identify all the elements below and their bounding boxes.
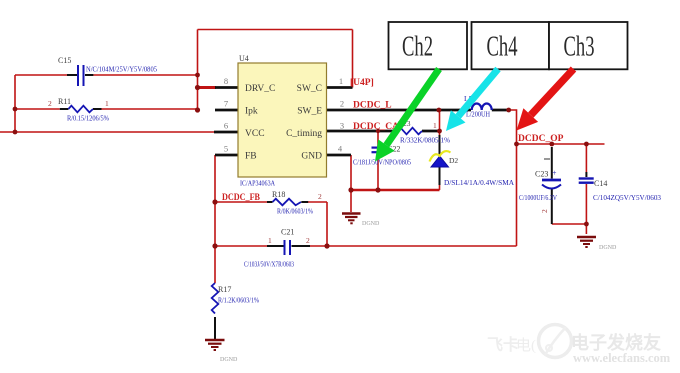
svg-text:R/0K/0603/1%: R/0K/0603/1% — [277, 208, 313, 216]
svg-text:DGND: DGND — [220, 357, 238, 363]
svg-text:Ipk: Ipk — [245, 107, 258, 117]
svg-text:1: 1 — [433, 121, 437, 130]
svg-text:C/1000UF/6.3V: C/1000UF/6.3V — [519, 194, 557, 202]
svg-text:8: 8 — [224, 76, 228, 86]
svg-text:C/103J/50V/X7R/0603: C/103J/50V/X7R/0603 — [244, 261, 294, 269]
svg-text:SW_C: SW_C — [297, 84, 322, 94]
svg-text:DRV_C: DRV_C — [245, 84, 275, 94]
svg-text:+: + — [552, 169, 557, 178]
svg-text:1: 1 — [268, 236, 272, 245]
svg-text:DGND: DGND — [599, 245, 617, 251]
svg-text:C15: C15 — [58, 56, 71, 65]
svg-text:D/SL14/1A/0.4W/SMA: D/SL14/1A/0.4W/SMA — [444, 179, 514, 187]
svg-text:R/1.2K/0603/1%: R/1.2K/0603/1% — [218, 297, 259, 305]
svg-text:7: 7 — [224, 99, 228, 109]
svg-text:2: 2 — [540, 209, 549, 213]
svg-text:C_timing: C_timing — [286, 129, 322, 139]
svg-text:2: 2 — [318, 192, 322, 201]
svg-text:Ch4: Ch4 — [487, 31, 518, 63]
svg-text:电(·: 电(· — [516, 337, 541, 354]
svg-text:6: 6 — [224, 121, 228, 131]
svg-text:3: 3 — [340, 121, 344, 131]
svg-text:VCC: VCC — [245, 129, 265, 139]
svg-text:4: 4 — [338, 144, 343, 154]
svg-text:2: 2 — [48, 99, 52, 108]
svg-text:C21: C21 — [281, 228, 294, 237]
svg-text:R17: R17 — [218, 285, 231, 294]
svg-text:R/332K/0805/1%: R/332K/0805/1% — [400, 137, 450, 145]
svg-text:R18: R18 — [272, 190, 285, 199]
svg-text:C/104ZQ5V/Y5V/0603: C/104ZQ5V/Y5V/0603 — [593, 194, 662, 202]
svg-text:www.elecfans.com: www.elecfans.com — [573, 351, 671, 365]
svg-text:N/C/104M/25V/Y5V/0805: N/C/104M/25V/Y5V/0805 — [86, 66, 157, 74]
svg-text:Ch3: Ch3 — [564, 31, 595, 63]
svg-text:5: 5 — [224, 144, 228, 154]
svg-text:SW_E: SW_E — [297, 107, 322, 117]
svg-text:C14: C14 — [594, 179, 607, 188]
svg-text:DCDC_FB: DCDC_FB — [222, 193, 261, 203]
svg-text:D2: D2 — [449, 156, 458, 165]
svg-text:[U4P]: [U4P] — [350, 78, 374, 88]
svg-text:Ch2: Ch2 — [402, 31, 433, 63]
svg-text:L/200UH: L/200UH — [466, 111, 490, 119]
svg-text:2: 2 — [306, 236, 310, 245]
svg-text:飞卡: 飞卡 — [487, 335, 519, 354]
svg-text:C/181J/50V/NPO/0805: C/181J/50V/NPO/0805 — [353, 159, 411, 167]
svg-text:R11: R11 — [58, 97, 71, 106]
svg-text:C23: C23 — [535, 170, 548, 179]
svg-text:2: 2 — [340, 99, 344, 109]
svg-text:DGND: DGND — [362, 221, 380, 227]
svg-text:GND: GND — [301, 152, 322, 162]
svg-text:1: 1 — [339, 76, 343, 86]
svg-text:U4: U4 — [239, 54, 249, 63]
svg-text:FB: FB — [245, 152, 257, 162]
svg-text:DCDC_OP: DCDC_OP — [518, 134, 564, 144]
svg-text:DCDC_L: DCDC_L — [353, 101, 392, 111]
svg-text:R/0.15/1206/5%: R/0.15/1206/5% — [67, 115, 109, 123]
svg-text:电子发烧友: 电子发烧友 — [571, 332, 661, 353]
svg-text:1: 1 — [105, 99, 109, 108]
svg-text:IC/AP34063A: IC/AP34063A — [240, 180, 276, 188]
